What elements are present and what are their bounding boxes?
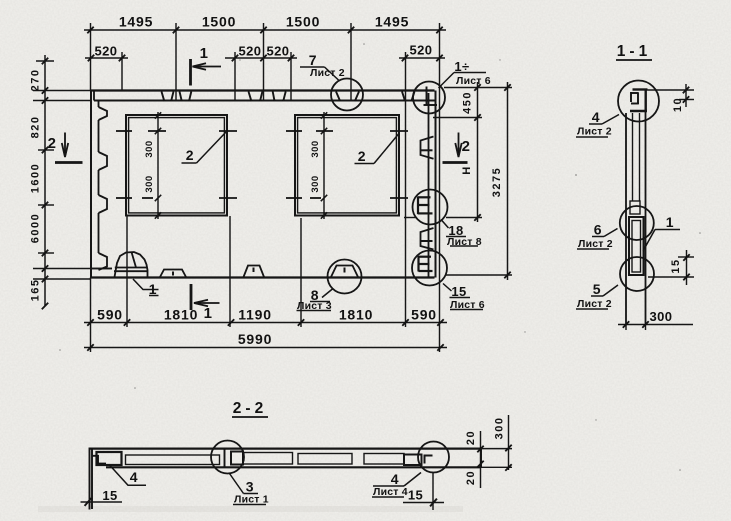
section mark 1 top: bar <box>189 59 192 86</box>
svg-text:6000: 6000 <box>30 213 42 243</box>
svg-text:Лист 8: Лист 8 <box>447 236 482 248</box>
detail circle 15 right edge <box>412 251 447 286</box>
left edge key 3 <box>99 195 108 213</box>
window2 vertical 300 dim line <box>321 112 327 219</box>
section 2-2 dim 15 right <box>403 473 444 510</box>
overall 5990 dim line <box>84 347 447 349</box>
section 1-1 dim 10 leader and line <box>648 84 695 107</box>
svg-text:Лист 2: Лист 2 <box>577 126 612 138</box>
svg-text:Лист 1: Лист 1 <box>234 494 269 506</box>
detail circle 8 bottom <box>328 260 362 294</box>
top chain ticks <box>87 27 442 33</box>
bottom chain ticks <box>87 319 443 325</box>
leader for label 8 <box>297 289 334 311</box>
small lug on bottom edge (middle) <box>244 266 265 278</box>
plan panel bottom edge <box>91 276 435 278</box>
svg-text:1495: 1495 <box>119 14 153 30</box>
svg-text:Н: Н <box>461 165 473 174</box>
right edge key 2 <box>421 228 434 250</box>
window opening 2 right (inner frame) <box>298 118 397 213</box>
window opening 2 left (inner frame) <box>129 118 225 213</box>
svg-text:1: 1 <box>204 305 213 322</box>
right column ticks <box>474 84 480 220</box>
svg-text:Лист 6: Лист 6 <box>450 299 485 311</box>
section 2-2 top edge <box>89 448 481 450</box>
section 1-1 item 1 pocket outer <box>629 217 644 275</box>
svg-text:300: 300 <box>650 309 673 324</box>
section 2-2 dim 300 right <box>481 415 512 470</box>
underline label 7 <box>300 66 325 68</box>
svg-text:300: 300 <box>494 417 506 440</box>
window2 anchor dashes row 2 <box>286 197 408 199</box>
svg-text:1: 1 <box>200 45 209 62</box>
svg-text:7: 7 <box>309 52 318 68</box>
item 1 lug on bottom edge <box>114 252 148 277</box>
right side extension lines <box>404 88 512 276</box>
svg-text:3275: 3275 <box>491 167 503 197</box>
leader for label 2 window1 <box>182 132 227 164</box>
svg-text:300: 300 <box>144 140 155 157</box>
520 row ticks <box>88 55 443 61</box>
svg-text:Лист 4: Лист 4 <box>373 486 408 498</box>
detail circle 1-4 top right <box>413 82 445 114</box>
plan right edge inner profile line <box>428 93 430 277</box>
svg-text:1500: 1500 <box>202 14 236 30</box>
svg-text:1810: 1810 <box>164 307 198 323</box>
section 2-2 title underline <box>232 416 268 418</box>
svg-text:520: 520 <box>95 44 118 59</box>
section 2-2 right joint box <box>404 455 422 466</box>
plan panel left outer edge <box>90 91 92 278</box>
section 2-2 right end dims 20/20 <box>480 431 482 488</box>
svg-text:300: 300 <box>310 140 321 157</box>
window opening 2 left (outer frame) <box>126 115 227 216</box>
right edge E-profile detail in circle 15 <box>419 256 433 272</box>
svg-text:590: 590 <box>411 307 437 323</box>
section mark 2 right: bar <box>443 161 468 164</box>
window1 300 labels <box>144 140 321 192</box>
top band wide key under circle 7 <box>336 92 359 101</box>
right edge corner detail glyph in circle 1-4 <box>424 87 438 106</box>
section 2-2 right joint hook <box>425 456 433 464</box>
svg-text:1600: 1600 <box>30 163 42 193</box>
bottom dimension chain 590/1810/1190/1810/590 <box>84 322 447 324</box>
svg-text:15: 15 <box>408 488 423 503</box>
section 2-2 detail circle right <box>418 442 449 473</box>
left edge key 1 <box>99 107 108 120</box>
svg-text:520: 520 <box>239 44 262 59</box>
svg-text:2-2: 2-2 <box>233 400 267 417</box>
svg-text:Лист 2: Лист 2 <box>310 67 345 79</box>
svg-text:1: 1 <box>666 214 675 230</box>
leader for label 18 <box>441 220 478 247</box>
section 1-1 detail circle bottom <box>620 257 654 291</box>
left column ticks <box>42 58 48 309</box>
left edge key 2 <box>99 152 108 170</box>
520 row extension lines <box>122 52 406 327</box>
svg-text:5: 5 <box>593 281 602 297</box>
svg-text:1810: 1810 <box>339 307 373 323</box>
top band key joints middle cluster <box>249 92 286 101</box>
window1 anchor dashes row 2 <box>116 197 237 199</box>
left dimension column line <box>44 55 46 306</box>
section mark 1 bottom: arrow <box>194 300 220 307</box>
window1 anchor dashes row 1 <box>116 130 237 132</box>
top dimension chain line 1495/1500/1500/1495 <box>84 29 446 31</box>
leader for label 1-4 <box>439 73 487 89</box>
window1 vertical 300 dim line <box>155 112 161 219</box>
section 1-1 label leaders <box>576 115 680 310</box>
svg-text:1÷: 1÷ <box>454 59 469 74</box>
section 2-2 channel D <box>364 454 404 465</box>
lug item 8 on bottom edge in circle <box>331 266 358 278</box>
section 2-2 detail circle middle <box>211 441 244 474</box>
section mark 2 left: arrow <box>62 133 68 158</box>
section 1-1 body outer lines <box>626 112 646 324</box>
svg-text:15: 15 <box>102 488 117 503</box>
section 1-1 body inner lines <box>633 113 640 201</box>
small lug on bottom edge (left) <box>160 270 186 278</box>
520 dim row segments <box>85 57 445 59</box>
section 2-2 item 4 box left <box>97 452 122 465</box>
plan left edge inner profile line <box>98 101 100 254</box>
svg-text:Лист 2: Лист 2 <box>578 238 613 250</box>
svg-text:20: 20 <box>465 470 477 485</box>
svg-text:450: 450 <box>462 91 474 114</box>
section 2-2 middle joint vertical <box>224 449 226 467</box>
section mark 2 right: arrow <box>455 133 461 158</box>
section 1-1 dim 300 bottom <box>618 324 693 331</box>
section mark 2 left: bar <box>55 161 83 164</box>
section 1-1 detail circle top <box>618 81 659 122</box>
svg-text:20: 20 <box>465 430 477 445</box>
section 2-2 label 4 left leader <box>110 466 146 486</box>
svg-text:5990: 5990 <box>238 331 272 347</box>
section 2-2 channel C <box>298 454 352 465</box>
svg-text:4: 4 <box>592 109 601 125</box>
svg-text:4: 4 <box>391 471 400 487</box>
svg-text:165: 165 <box>30 279 42 302</box>
top chain extension lines <box>91 23 440 352</box>
section 2-2 right end cap <box>480 448 482 468</box>
right edge E-profile detail in circle 18 <box>418 197 433 215</box>
3275 ticks <box>504 84 510 278</box>
svg-text:1500: 1500 <box>286 14 320 30</box>
section 2-2 label 4 right leader <box>372 473 421 498</box>
section mark 1 bottom: bar <box>190 284 193 310</box>
svg-text:590: 590 <box>97 307 123 323</box>
svg-text:520: 520 <box>410 43 433 58</box>
leader for label 1 lug <box>133 279 159 296</box>
right dim column 450/H <box>477 82 479 222</box>
svg-text:1-1: 1-1 <box>617 43 651 60</box>
section 2-2 channel A <box>126 455 220 465</box>
section 1-1 top hook profile <box>630 89 648 113</box>
svg-text:1495: 1495 <box>375 14 409 30</box>
svg-text:15: 15 <box>670 258 682 273</box>
svg-text:300: 300 <box>310 175 321 192</box>
right edge key 1 <box>421 137 434 159</box>
svg-text:820: 820 <box>30 116 42 139</box>
plan panel top edge band <box>91 91 435 101</box>
section mark 1 top: arrow <box>193 63 222 70</box>
section 2-2 dim 15 left <box>81 501 123 503</box>
section 2-2 left end profile <box>90 448 107 510</box>
section 1-1 dim 15 bottom right <box>648 250 694 285</box>
section 1-1 item 1 pocket inner <box>632 221 641 273</box>
svg-text:2: 2 <box>186 147 195 163</box>
svg-text:270: 270 <box>30 69 42 92</box>
section 2-2 label 3 leader <box>230 474 267 505</box>
svg-text:6: 6 <box>594 222 603 238</box>
top band key near right corner <box>402 92 415 101</box>
svg-text:Лист 6: Лист 6 <box>456 75 491 87</box>
window opening 2 right (outer frame) <box>295 115 399 216</box>
3275 dim line <box>507 82 509 280</box>
leader for label 2 window2 <box>355 134 399 164</box>
section 2-2 middle joint box <box>231 452 243 465</box>
left column extension lines <box>33 61 112 279</box>
bottom left corner step <box>91 268 112 270</box>
svg-text:Лист 2: Лист 2 <box>577 298 612 310</box>
bottom chain extension lines <box>91 216 302 352</box>
leader for label 7 <box>325 67 340 81</box>
detail circle 7 <box>331 79 363 111</box>
svg-text:2: 2 <box>358 148 367 164</box>
svg-text:300: 300 <box>144 175 155 192</box>
svg-text:1: 1 <box>149 281 158 297</box>
window2 anchor dashes row 1 <box>286 130 408 132</box>
section 2-2 bottom edge <box>106 466 481 468</box>
left edge key 4 bottom <box>99 253 108 270</box>
leader for label 15 plan <box>443 284 483 310</box>
svg-text:1190: 1190 <box>238 307 272 323</box>
svg-text:3: 3 <box>246 479 255 495</box>
section 1-1 middle step detail <box>630 201 640 214</box>
detail circle 18 <box>413 190 448 225</box>
5990 ticks <box>87 344 443 350</box>
svg-text:520: 520 <box>267 44 290 59</box>
svg-text:Лист 3: Лист 3 <box>297 300 332 312</box>
plan panel right outer edge <box>435 91 437 278</box>
svg-text:10: 10 <box>672 97 684 112</box>
top band key joints left cluster <box>162 92 192 101</box>
svg-text:2: 2 <box>462 138 471 155</box>
section 2-2 channel B <box>243 453 293 465</box>
svg-text:4: 4 <box>130 469 139 485</box>
svg-text:15: 15 <box>451 284 466 299</box>
section 1-1 detail circle middle <box>620 206 654 240</box>
section 1-1 title underline <box>616 59 652 61</box>
